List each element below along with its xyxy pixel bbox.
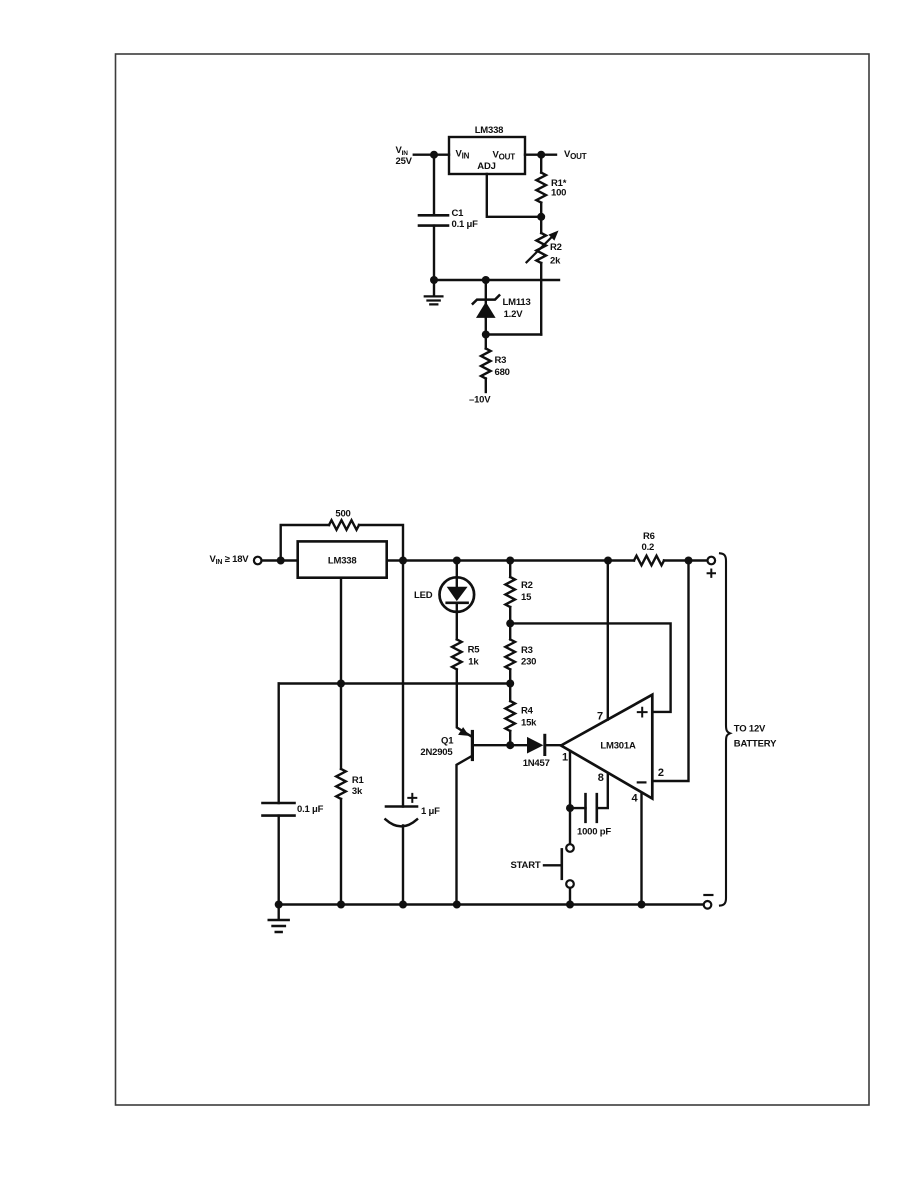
svg-text:LM113: LM113 — [503, 297, 531, 308]
svg-text:C1: C1 — [452, 208, 465, 219]
wire mid horizontal (ADJ sense line) — [279, 682, 511, 684]
svg-text:0.2: 0.2 — [642, 542, 655, 553]
svg-text:1: 1 — [562, 752, 568, 764]
svg-text:R4: R4 — [521, 705, 534, 716]
wire pin 1 down to switch — [569, 751, 571, 844]
svg-text:VOUT: VOUT — [493, 150, 516, 162]
svg-text:BATTERY: BATTERY — [734, 738, 777, 749]
wire pin 4 down to rail — [640, 793, 642, 905]
svg-text:1N457: 1N457 — [523, 758, 550, 769]
resistor R1 3k — [340, 684, 342, 769]
resistor R6 0.2 — [634, 556, 664, 566]
node R2/R3 noninverting junction — [506, 619, 514, 627]
svg-text:15: 15 — [521, 592, 532, 603]
svg-text:VIN ≥ 18V: VIN ≥ 18V — [210, 554, 250, 566]
node ground rail left — [275, 901, 283, 909]
resistor 500 bypass loop — [281, 525, 403, 561]
resistor R3 230 — [509, 623, 511, 639]
svg-text:230: 230 — [521, 656, 536, 667]
wire LM113 bottom to R2 bottom — [486, 318, 541, 335]
ground symbol — [433, 280, 435, 296]
wire ground rail (top circuit) — [432, 279, 559, 281]
wire VOUT lead — [525, 153, 556, 155]
wire C1 top lead — [433, 155, 435, 216]
svg-text:2: 2 — [658, 767, 664, 779]
node R2 rail junction — [506, 557, 514, 565]
resistor R2 15 — [509, 561, 511, 578]
plus sign of 1uF — [408, 794, 416, 802]
wire VIN lead into LM338 — [262, 559, 298, 561]
svg-text:–10V: –10V — [469, 395, 491, 406]
node R3/R4 mid junction — [506, 680, 514, 688]
svg-text:7: 7 — [597, 710, 603, 722]
node LED rail junction — [453, 557, 461, 565]
svg-text:1 μF: 1 μF — [421, 806, 440, 817]
node VOUT junction — [537, 151, 545, 159]
node VIN / 500 ohm left junction — [277, 557, 285, 565]
svg-text:R2: R2 — [521, 580, 533, 591]
node 1uF bottom — [399, 901, 407, 909]
node pin1/1000pF junction — [566, 804, 574, 812]
resistor R1* 100 — [540, 155, 542, 173]
arrow of potentiometer R2 — [527, 236, 553, 262]
svg-text:15k: 15k — [521, 717, 537, 728]
wire pin 7 supply — [607, 561, 609, 720]
potentiometer R2 2k — [540, 217, 542, 233]
capacitor 1000pF plates — [586, 794, 597, 822]
wire ADJ pin to R1/R2 junction — [487, 174, 541, 217]
svg-text:VOUT: VOUT — [564, 149, 587, 161]
svg-text:0.1 μF: 0.1 μF — [452, 219, 479, 230]
wire to op-amp + input — [510, 623, 670, 712]
svg-text:LM338: LM338 — [328, 555, 357, 566]
wire Q1 base to diode — [475, 744, 527, 746]
svg-text:1k: 1k — [468, 656, 479, 667]
LED indicator circle — [440, 577, 475, 612]
node R4/base/diode junction — [506, 741, 514, 749]
node switch bottom — [566, 901, 574, 909]
resistor R5 1k — [452, 639, 462, 669]
page border frame — [116, 54, 870, 1105]
svg-text:1000 pF: 1000 pF — [577, 827, 611, 838]
LED triangle and cathode bar — [456, 561, 458, 640]
plus sign — [708, 570, 715, 577]
capacitor C1 0.1uF plates — [419, 215, 448, 225]
svg-text:3k: 3k — [352, 786, 363, 797]
wire bottom ground rail — [279, 903, 704, 905]
resistor R4 15k — [509, 684, 511, 702]
svg-text:2k: 2k — [550, 256, 561, 267]
transistor Q1 2N2905 — [457, 669, 471, 736]
minus input marker — [638, 781, 646, 783]
svg-text:1.2V: 1.2V — [504, 309, 524, 320]
svg-text:VIN: VIN — [456, 149, 470, 161]
svg-text:4: 4 — [632, 792, 639, 804]
svg-text:R3: R3 — [495, 355, 507, 366]
op-amp U3 LM301A triangle — [561, 695, 652, 799]
node VIN junction — [430, 151, 438, 159]
node ground junction — [430, 276, 438, 284]
terminal - output circle — [704, 901, 712, 909]
svg-text:LM338: LM338 — [475, 125, 504, 136]
svg-text:2N2905: 2N2905 — [420, 747, 453, 758]
node R1/R2/ADJ junction — [537, 213, 545, 221]
node ADJ/R1 mid junction — [337, 680, 345, 688]
svg-text:R3: R3 — [521, 645, 533, 656]
brace TO 12V BATTERY — [720, 553, 730, 905]
wire pin 8 comp — [599, 773, 608, 808]
wire 1000pF left lead — [570, 807, 586, 809]
svg-text:680: 680 — [495, 367, 510, 378]
node pin7/R6 rail junction — [604, 557, 612, 565]
svg-text:R6: R6 — [643, 531, 655, 542]
zener diode D1 LM113 — [485, 280, 487, 318]
regulator U1 LM338 box — [449, 137, 525, 174]
svg-text:0.1 μF: 0.1 μF — [297, 804, 324, 815]
svg-text:8: 8 — [598, 772, 604, 784]
svg-text:LM301A: LM301A — [600, 740, 636, 751]
wire C1 bottom lead — [433, 226, 435, 280]
wire top output rail — [387, 559, 634, 561]
svg-text:ADJ: ADJ — [477, 161, 495, 172]
node pin4 bottom — [638, 901, 646, 909]
svg-text:500: 500 — [335, 509, 350, 520]
ground symbol (bottom) — [278, 905, 280, 920]
node LM113/R3 junction — [482, 331, 490, 339]
wire 0.1uF leads — [278, 684, 280, 905]
regulator U2 LM338 box — [298, 541, 387, 577]
svg-text:R1: R1 — [352, 775, 365, 786]
svg-text:LED: LED — [414, 590, 433, 601]
node 500ohm/1uF rail junction — [399, 557, 407, 565]
terminal + output circle — [708, 557, 716, 565]
plus input marker — [638, 708, 647, 717]
svg-text:START: START — [511, 860, 541, 871]
svg-text:R5: R5 — [468, 644, 481, 655]
svg-text:R2: R2 — [550, 242, 562, 253]
wire pin 2 comp to rail — [652, 561, 688, 782]
svg-text:Q1: Q1 — [441, 735, 454, 746]
diode D2 1N457 — [527, 737, 543, 754]
resistor R3 680 — [485, 335, 487, 349]
node R6/pin2 junction — [685, 557, 693, 565]
svg-text:25V: 25V — [396, 156, 413, 167]
capacitor 0.1uF plates — [263, 803, 295, 816]
wire ADJ pin down from LM338 — [340, 578, 342, 684]
node R1 bottom — [337, 901, 345, 909]
wire VIN input lead — [414, 153, 449, 155]
svg-text:TO 12V: TO 12V — [734, 724, 766, 735]
node Q1 collector bottom — [453, 901, 461, 909]
capacitor 1uF electrolytic — [402, 561, 404, 905]
svg-text:100: 100 — [551, 187, 566, 198]
switch START pushbutton — [566, 844, 574, 852]
minus sign — [704, 894, 712, 896]
terminal VIN input circle — [254, 557, 262, 565]
node LM113 top junction — [482, 276, 490, 284]
